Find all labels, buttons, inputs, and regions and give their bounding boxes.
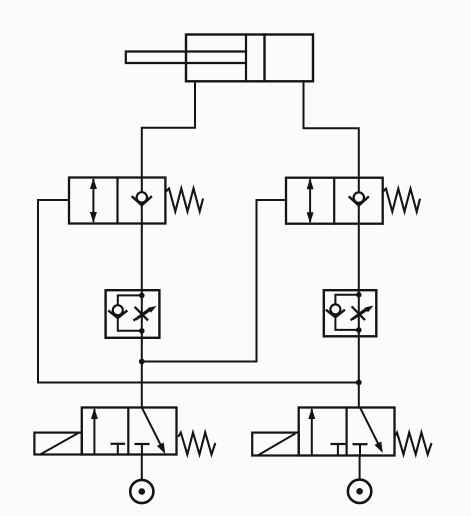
wire F1 down to valve V3 (141, 338, 143, 408)
F2 node dots (356, 292, 362, 333)
V1 check valve (133, 178, 151, 224)
wire node N2 to V1 pilot (38, 382, 359, 384)
V4 blocked port T (left cell) (332, 444, 345, 456)
spring of V3 (179, 433, 215, 455)
piston (246, 35, 265, 82)
V1 flow path double arrow (90, 178, 97, 223)
valve V1 (pilot operated 2/2 valve, left) (69, 178, 165, 224)
V3 exhaust diagonal arrow (right cell) (142, 408, 166, 455)
valve V3 (3/2-way solenoid valve, left) (82, 408, 177, 455)
spring of V1 (166, 188, 203, 211)
wire V4 supply port to source P2 (359, 456, 361, 480)
V3 blocked port T (right cell) (136, 444, 149, 455)
V4 blocked port T (right cell) (354, 444, 367, 455)
F2 throttle (variable restrictor) (351, 306, 373, 320)
pressure source P1 (left) (130, 480, 153, 503)
valve V2 (pilot operated 2/2 valve, right) (286, 178, 383, 224)
pressure source P2 (right) (348, 480, 371, 503)
flow control valve F1 (one-way flow control, left) (106, 290, 160, 338)
F1 throttle (variable restrictor) (134, 306, 156, 320)
valve V4 (3/2-way solenoid valve, right) (299, 408, 395, 456)
flow control valve F2 (one-way flow control, right) (324, 290, 377, 336)
spring of V4 (395, 433, 431, 455)
wire node N1 to V2 pilot (142, 361, 257, 363)
node N1 (junction on left line) (139, 359, 145, 365)
wire V2 pilot port (left side, from node N1 line) (257, 200, 286, 362)
wire cylinder right port to valve V2 (304, 81, 359, 178)
V2 check valve (350, 178, 368, 224)
V3 blocked port T (left cell) (112, 444, 124, 455)
wire V2 outlet down to flow control F2 (358, 224, 360, 291)
V4 flow arrow (left cell) (308, 408, 315, 456)
F1 node dots (139, 293, 145, 334)
wire cylinder left port to valve V1 (142, 81, 195, 178)
V2 flow path double arrow (307, 178, 314, 223)
piston rod (126, 52, 246, 64)
wire V3 supply port to source P1 (141, 455, 143, 481)
V3 flow arrow (left cell) (91, 408, 98, 455)
V4 exhaust diagonal arrow (right cell) (360, 408, 383, 454)
wire F2 down to valve V4 (358, 336, 360, 407)
spring of V2 (383, 189, 420, 212)
wire V1 outlet down to flow control F1 (141, 224, 143, 291)
node N2 (junction on right line) (356, 380, 362, 386)
wire V1 pilot port (left side, from node N2 line) (38, 200, 69, 383)
cylinder A (single-acting cylinder body) (186, 35, 313, 82)
solenoid of V3 (34, 433, 81, 455)
solenoid of V4 (252, 433, 299, 456)
